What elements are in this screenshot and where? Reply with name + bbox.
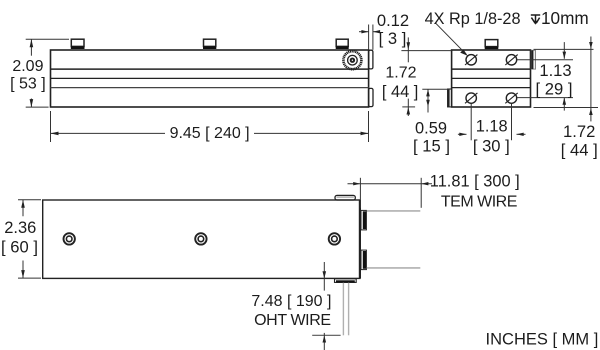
fitting circle (side view) bbox=[343, 51, 361, 69]
TEM wire upper bbox=[367, 210, 421, 212]
bottom view hole 3 bbox=[329, 233, 340, 244]
svg-text:INCHES [ MM ]: INCHES [ MM ] bbox=[486, 331, 599, 349]
svg-text:1.72: 1.72 bbox=[385, 65, 416, 82]
hole bottom-right bbox=[505, 93, 517, 103]
hole top-left bbox=[465, 55, 477, 65]
svg-text:0.59: 0.59 bbox=[415, 119, 447, 137]
dim 1.13 dimension line bbox=[563, 42, 565, 59]
dim 2.09 extension lines bbox=[26, 38, 69, 40]
dim 0.59: dimension line bbox=[427, 89, 429, 112]
svg-text:9.45 [ 240 ]: 9.45 [ 240 ] bbox=[170, 125, 250, 142]
end view left cap bbox=[448, 89, 452, 107]
svg-text:4X Rp 1/8-28: 4X Rp 1/8-28 bbox=[425, 10, 521, 28]
svg-text:2.36: 2.36 bbox=[4, 219, 36, 237]
svg-text:TEM WIRE: TEM WIRE bbox=[441, 193, 517, 210]
hole bottom-left bbox=[465, 93, 477, 103]
end view right fitting bar bbox=[531, 50, 535, 69]
dim 11.81: tick lines bbox=[359, 178, 361, 208]
svg-text:[ 29 ]: [ 29 ] bbox=[536, 80, 573, 99]
right cap (side view) bbox=[369, 88, 373, 106]
svg-text:1.72: 1.72 bbox=[563, 122, 595, 141]
tab 2 bbox=[203, 39, 216, 49]
dim 2.36 extension lines bbox=[18, 199, 41, 201]
side view inner line 1 bbox=[51, 68, 369, 70]
end view body bbox=[452, 50, 531, 107]
dim 2.09 dimension line bbox=[30, 39, 32, 55]
dim 0.12 arrows bbox=[359, 31, 369, 33]
svg-text:2.09: 2.09 bbox=[12, 58, 43, 75]
svg-text:[ 44 ]: [ 44 ] bbox=[561, 140, 598, 159]
ext line from top-right hole bbox=[517, 59, 573, 61]
side view body bbox=[51, 50, 369, 107]
dim 11.81: dimension line bbox=[348, 183, 433, 185]
OHT wire end tick bbox=[312, 334, 340, 336]
svg-text:OHT WIRE: OHT WIRE bbox=[254, 312, 331, 329]
end view tab bbox=[485, 40, 499, 50]
svg-text:0.12: 0.12 bbox=[377, 11, 409, 30]
svg-text:11.81 [ 300 ]: 11.81 [ 300 ] bbox=[430, 173, 520, 191]
dim 1.72 left: extension lines bbox=[401, 50, 451, 52]
tab 1 bbox=[71, 39, 85, 49]
TEM wire lower bbox=[367, 267, 421, 269]
svg-text:[ 3 ]: [ 3 ] bbox=[379, 29, 407, 48]
end view inner line 2 bbox=[452, 77, 531, 79]
svg-text:[ 30 ]: [ 30 ] bbox=[473, 136, 510, 155]
dim 1.72 right: dimension line bbox=[590, 37, 592, 122]
dim 0.59: extension line bbox=[422, 88, 449, 90]
OHT wire pair bbox=[343, 283, 348, 336]
end view inner line 1 bbox=[452, 68, 531, 70]
dim 1.72 right: extension lines bbox=[534, 48, 594, 50]
leader 4X Rp bbox=[435, 23, 466, 55]
svg-text:7.48 [ 190 ]: 7.48 [ 190 ] bbox=[251, 293, 331, 310]
svg-text:1.18: 1.18 bbox=[476, 117, 508, 135]
end view inner line 3 bbox=[452, 87, 531, 89]
svg-text:[ 60 ]: [ 60 ] bbox=[1, 237, 38, 256]
bottom view top bump bbox=[335, 195, 355, 200]
svg-text:[ 53 ]: [ 53 ] bbox=[10, 75, 46, 92]
right connector 1 (TEM) bbox=[361, 210, 366, 230]
svg-text:[ 44 ]: [ 44 ] bbox=[382, 83, 418, 101]
svg-text:1.13: 1.13 bbox=[539, 61, 571, 80]
tab 3 bbox=[336, 39, 349, 49]
dim 7.48: dimension line bbox=[323, 262, 325, 291]
dim 1.18 arrows bbox=[458, 133, 467, 135]
ext line from bottom-right hole bbox=[517, 97, 573, 99]
dim 2.36 dimension line bbox=[22, 200, 24, 216]
bottom view hole 2 bbox=[195, 233, 206, 244]
leaders from bottom holes bbox=[470, 104, 472, 140]
dim 1.72 left: dimension line bbox=[407, 37, 409, 62]
right connector 2 (TEM) bbox=[361, 250, 366, 270]
bottom view body bbox=[43, 200, 360, 278]
hole top-right bbox=[505, 55, 517, 65]
side view inner line 3 bbox=[51, 87, 369, 89]
svg-text:[ 15 ]: [ 15 ] bbox=[413, 136, 450, 155]
dim 9.45 extension lines bbox=[50, 111, 52, 142]
dim 0.12 extension lines bbox=[368, 25, 370, 50]
svg-text:10mm: 10mm bbox=[541, 8, 589, 28]
depth symbol bbox=[531, 15, 540, 25]
right boss (side view) bbox=[369, 50, 373, 69]
bottom connector (OHT) bbox=[335, 279, 357, 283]
dim 9.45 dimension line bbox=[51, 132, 166, 134]
bottom view hole 1 bbox=[63, 233, 74, 244]
side view inner line 2 bbox=[51, 77, 369, 79]
